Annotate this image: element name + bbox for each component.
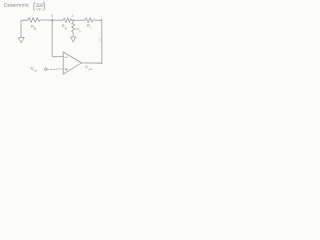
resistor RA (vertical at node A) (72, 20, 75, 36)
input terminal Vin (45, 68, 47, 70)
svg-text:Vout: Vout (36, 2, 43, 6)
wire: right vertical (feedback) (101, 19, 103, 65)
label Vin (30, 66, 37, 73)
minus sign (inverting input) (65, 56, 68, 58)
svg-text:B: B (65, 26, 67, 30)
resistor RC (right, horizontal) (85, 18, 93, 22)
plus sign (non-inverting input) (65, 68, 68, 71)
wire: top rail between RB and node N (40, 19, 52, 21)
wire: Vin terminal to + input (47, 68, 63, 71)
svg-text:in: in (34, 68, 37, 72)
label RB (left) (31, 24, 36, 31)
svg-text:out: out (88, 67, 92, 71)
wire: from node N down to inverting input (52, 20, 63, 57)
svg-text:E: E (99, 38, 101, 42)
wire: top rail from node N to RB2 (52, 19, 63, 21)
wire: top rail node A region (72, 19, 86, 21)
ground (below RA, arrow style) (71, 37, 76, 42)
fraction (Vout/Vin) (34, 1, 45, 11)
svg-text:Vin: Vin (36, 7, 41, 11)
svg-text:A: A (79, 29, 81, 33)
label RC (87, 23, 92, 30)
wire: left vertical from top rail to ground (20, 20, 22, 37)
wire: op-amp output to right vertical (81, 62, 102, 64)
op-amp U1 (63, 52, 81, 74)
wire: top rail right segment to corner (93, 19, 102, 21)
label RA (76, 27, 81, 34)
resistor RB (left, horizontal) (28, 18, 40, 23)
ground (18, 37, 24, 42)
svg-text:Determine: Determine (4, 3, 29, 9)
wire: top rail left segment (21, 19, 28, 21)
svg-text:B: B (34, 27, 36, 31)
label Vout (85, 65, 93, 71)
label RB2 (62, 24, 67, 31)
node N junction dot (51, 19, 53, 21)
resistor RB2 (middle, horizontal) (63, 18, 72, 22)
